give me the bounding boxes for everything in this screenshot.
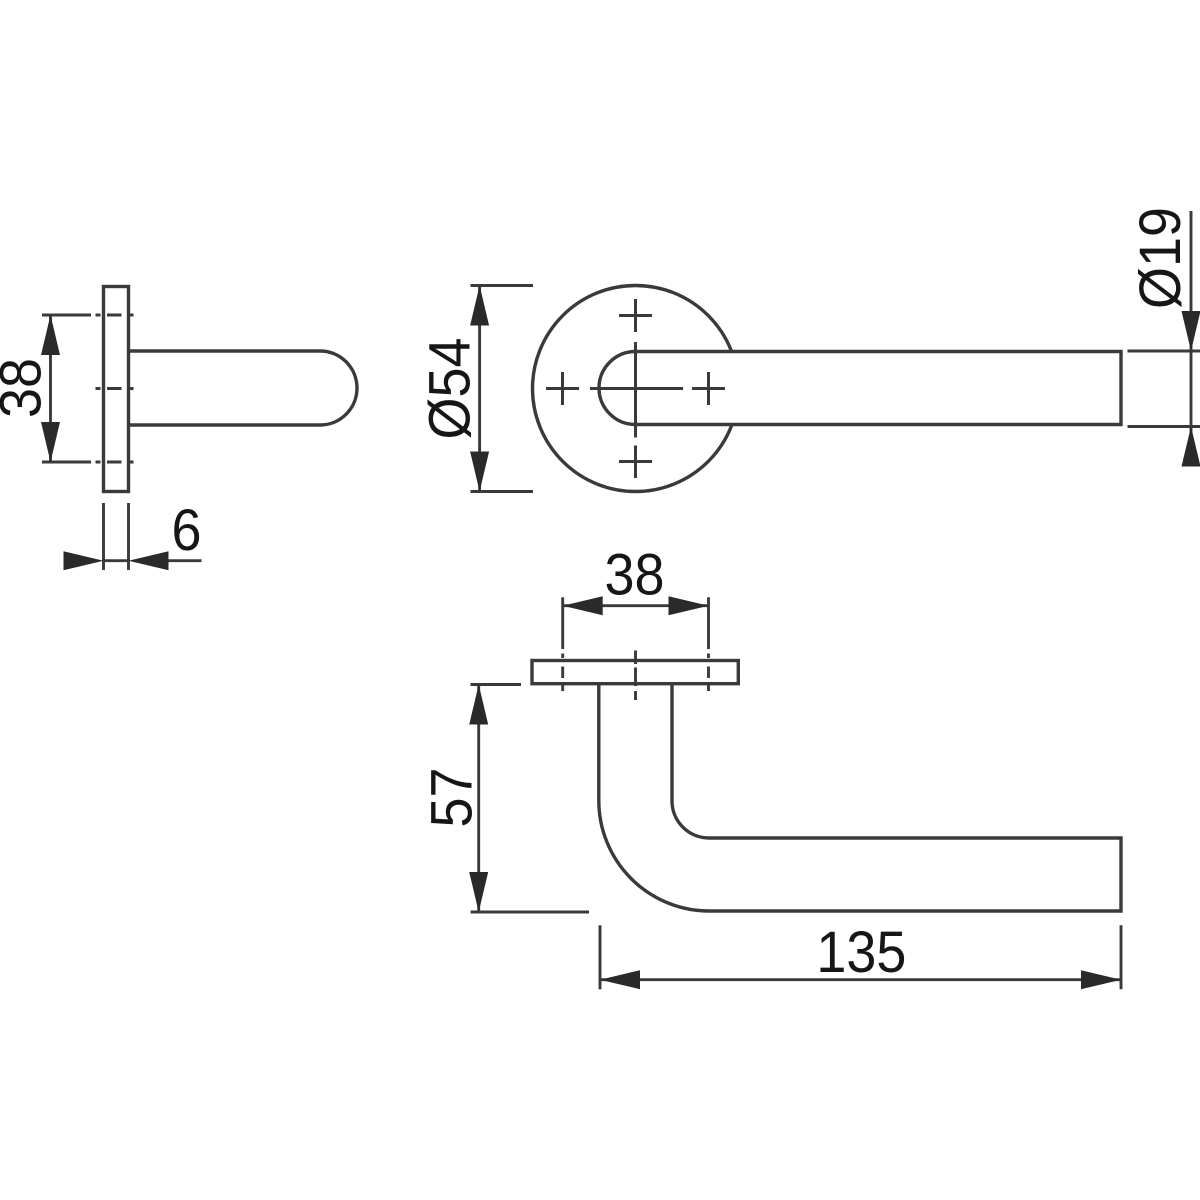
svg-text:Ø54: Ø54 (417, 338, 482, 440)
svg-text:38: 38 (605, 542, 665, 607)
svg-text:6: 6 (171, 497, 201, 562)
svg-text:Ø19: Ø19 (1127, 207, 1192, 309)
svg-text:38: 38 (0, 358, 53, 418)
svg-text:57: 57 (419, 768, 484, 828)
svg-text:135: 135 (816, 919, 906, 984)
